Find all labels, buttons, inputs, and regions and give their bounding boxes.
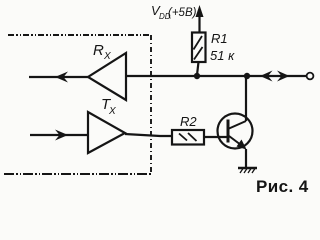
label Tx bbox=[101, 96, 116, 117]
svg-text:51 к: 51 к bbox=[210, 48, 235, 63]
resistor R2 (horizontal box) bbox=[172, 130, 204, 145]
bidirectional arrow on line (left head) bbox=[260, 71, 273, 82]
wire: Tx output to R2 bbox=[125, 134, 172, 136]
label R2 bbox=[180, 114, 197, 129]
svg-text:X: X bbox=[103, 51, 111, 62]
transistor Q1 (NPN) bbox=[218, 114, 253, 150]
wire: node B down to collector bbox=[245, 76, 247, 121]
wire: R1 bottom to node A bbox=[197, 62, 199, 75]
collector stroke bbox=[229, 121, 246, 129]
op-amp Rx (receiver buffer triangle, points left) bbox=[88, 53, 126, 100]
wire: Rx output (left) bbox=[29, 76, 88, 78]
svg-text:Рис. 4: Рис. 4 bbox=[256, 177, 309, 196]
label VDD (+5V) bbox=[151, 3, 197, 21]
svg-text:X: X bbox=[108, 106, 116, 117]
base bar bbox=[227, 120, 230, 143]
terminal: open circle output bbox=[307, 73, 314, 80]
IC boundary dashed box (bottom edge) bbox=[4, 173, 152, 175]
wire: main top rail from Rx input to output terminal bbox=[126, 75, 307, 77]
svg-text:R: R bbox=[93, 42, 104, 59]
resistor R1 (vertical box) bbox=[192, 33, 206, 63]
value label 51 k bbox=[210, 48, 235, 63]
node B: junction dot at collector bbox=[244, 73, 250, 79]
arrowhead on Rx output wire (points left) bbox=[55, 72, 68, 83]
svg-text:R2: R2 bbox=[180, 114, 197, 129]
ground bbox=[238, 168, 257, 173]
op-amp Tx (transmitter buffer triangle, points right) bbox=[88, 112, 125, 153]
emitter arrowhead bbox=[237, 140, 247, 150]
label R1 bbox=[211, 31, 228, 46]
bidirectional arrow on line (right head) bbox=[277, 71, 290, 82]
wire: Tx input (left) bbox=[30, 134, 88, 136]
svg-text:R1: R1 bbox=[211, 31, 228, 46]
emitter stroke bbox=[229, 136, 245, 148]
svg-text:(+5В): (+5В) bbox=[168, 7, 197, 19]
label Rx bbox=[93, 42, 111, 62]
node A: junction dot at R1 bottom bbox=[194, 73, 200, 79]
IC boundary dashed box (right edge) bbox=[150, 35, 152, 174]
IC boundary dashed box (top edge) bbox=[8, 34, 151, 36]
wire: R2 to base of transistor bbox=[204, 136, 227, 138]
body circle bbox=[218, 114, 253, 149]
power arrow VDD (points up) bbox=[196, 5, 204, 33]
arrowhead on Tx input wire (points right) bbox=[55, 130, 68, 141]
wire: emitter down to ground bbox=[245, 149, 247, 168]
figure caption Рис. 4 bbox=[256, 177, 309, 196]
